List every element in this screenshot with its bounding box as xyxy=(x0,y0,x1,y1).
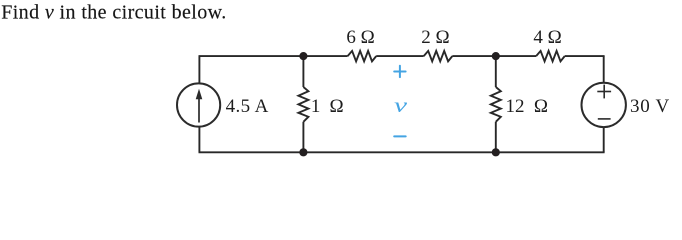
svg-text:Ω: Ω xyxy=(534,96,548,117)
svg-text:6 Ω: 6 Ω xyxy=(346,27,374,48)
wire between 2ohm and 4ohm xyxy=(452,55,536,57)
svg-text:v: v xyxy=(394,95,408,117)
svg-text:30 V: 30 V xyxy=(630,96,670,117)
junction dot top A xyxy=(299,52,307,60)
svg-text:Find v in the circuit below.: Find v in the circuit below. xyxy=(1,1,226,23)
resistor 2ohm zigzag xyxy=(424,51,453,61)
wire middle vertical node A bottom xyxy=(302,122,304,153)
voltage source V1 plus sign xyxy=(597,85,611,99)
voltage source V1 circle xyxy=(582,83,626,127)
wire top segment left xyxy=(199,55,348,57)
wire middle vertical node B top xyxy=(495,56,497,87)
svg-text:4.5 A: 4.5 A xyxy=(226,96,269,117)
svg-text:1: 1 xyxy=(311,96,321,117)
svg-text:Ω: Ω xyxy=(330,96,344,117)
resistor 12ohm zigzag xyxy=(491,87,501,122)
wire bottom xyxy=(199,151,605,153)
svg-text:12: 12 xyxy=(506,96,525,117)
resistor 4ohm zigzag xyxy=(536,51,565,61)
resistor 1ohm zigzag xyxy=(298,87,308,122)
svg-text:4 Ω: 4 Ω xyxy=(533,27,561,48)
node v minus mark xyxy=(394,135,406,137)
wire right vertical xyxy=(603,56,605,152)
wire left vertical xyxy=(198,56,200,152)
voltage source V1 minus sign xyxy=(598,118,611,120)
junction dot bottom B xyxy=(492,148,500,156)
junction dot top B xyxy=(492,52,500,60)
svg-text:2 Ω: 2 Ω xyxy=(421,27,449,48)
wire middle vertical node A top xyxy=(302,56,304,87)
wire between 6ohm and 2ohm xyxy=(376,55,424,57)
wire top segment right xyxy=(565,55,605,57)
current source I1 circle xyxy=(177,83,220,126)
wire middle vertical node B bottom xyxy=(495,122,497,153)
current source I1 arrow xyxy=(196,89,203,123)
resistor 6ohm zigzag xyxy=(348,51,377,61)
node v plus mark xyxy=(394,66,405,77)
junction dot bottom A xyxy=(299,148,307,156)
